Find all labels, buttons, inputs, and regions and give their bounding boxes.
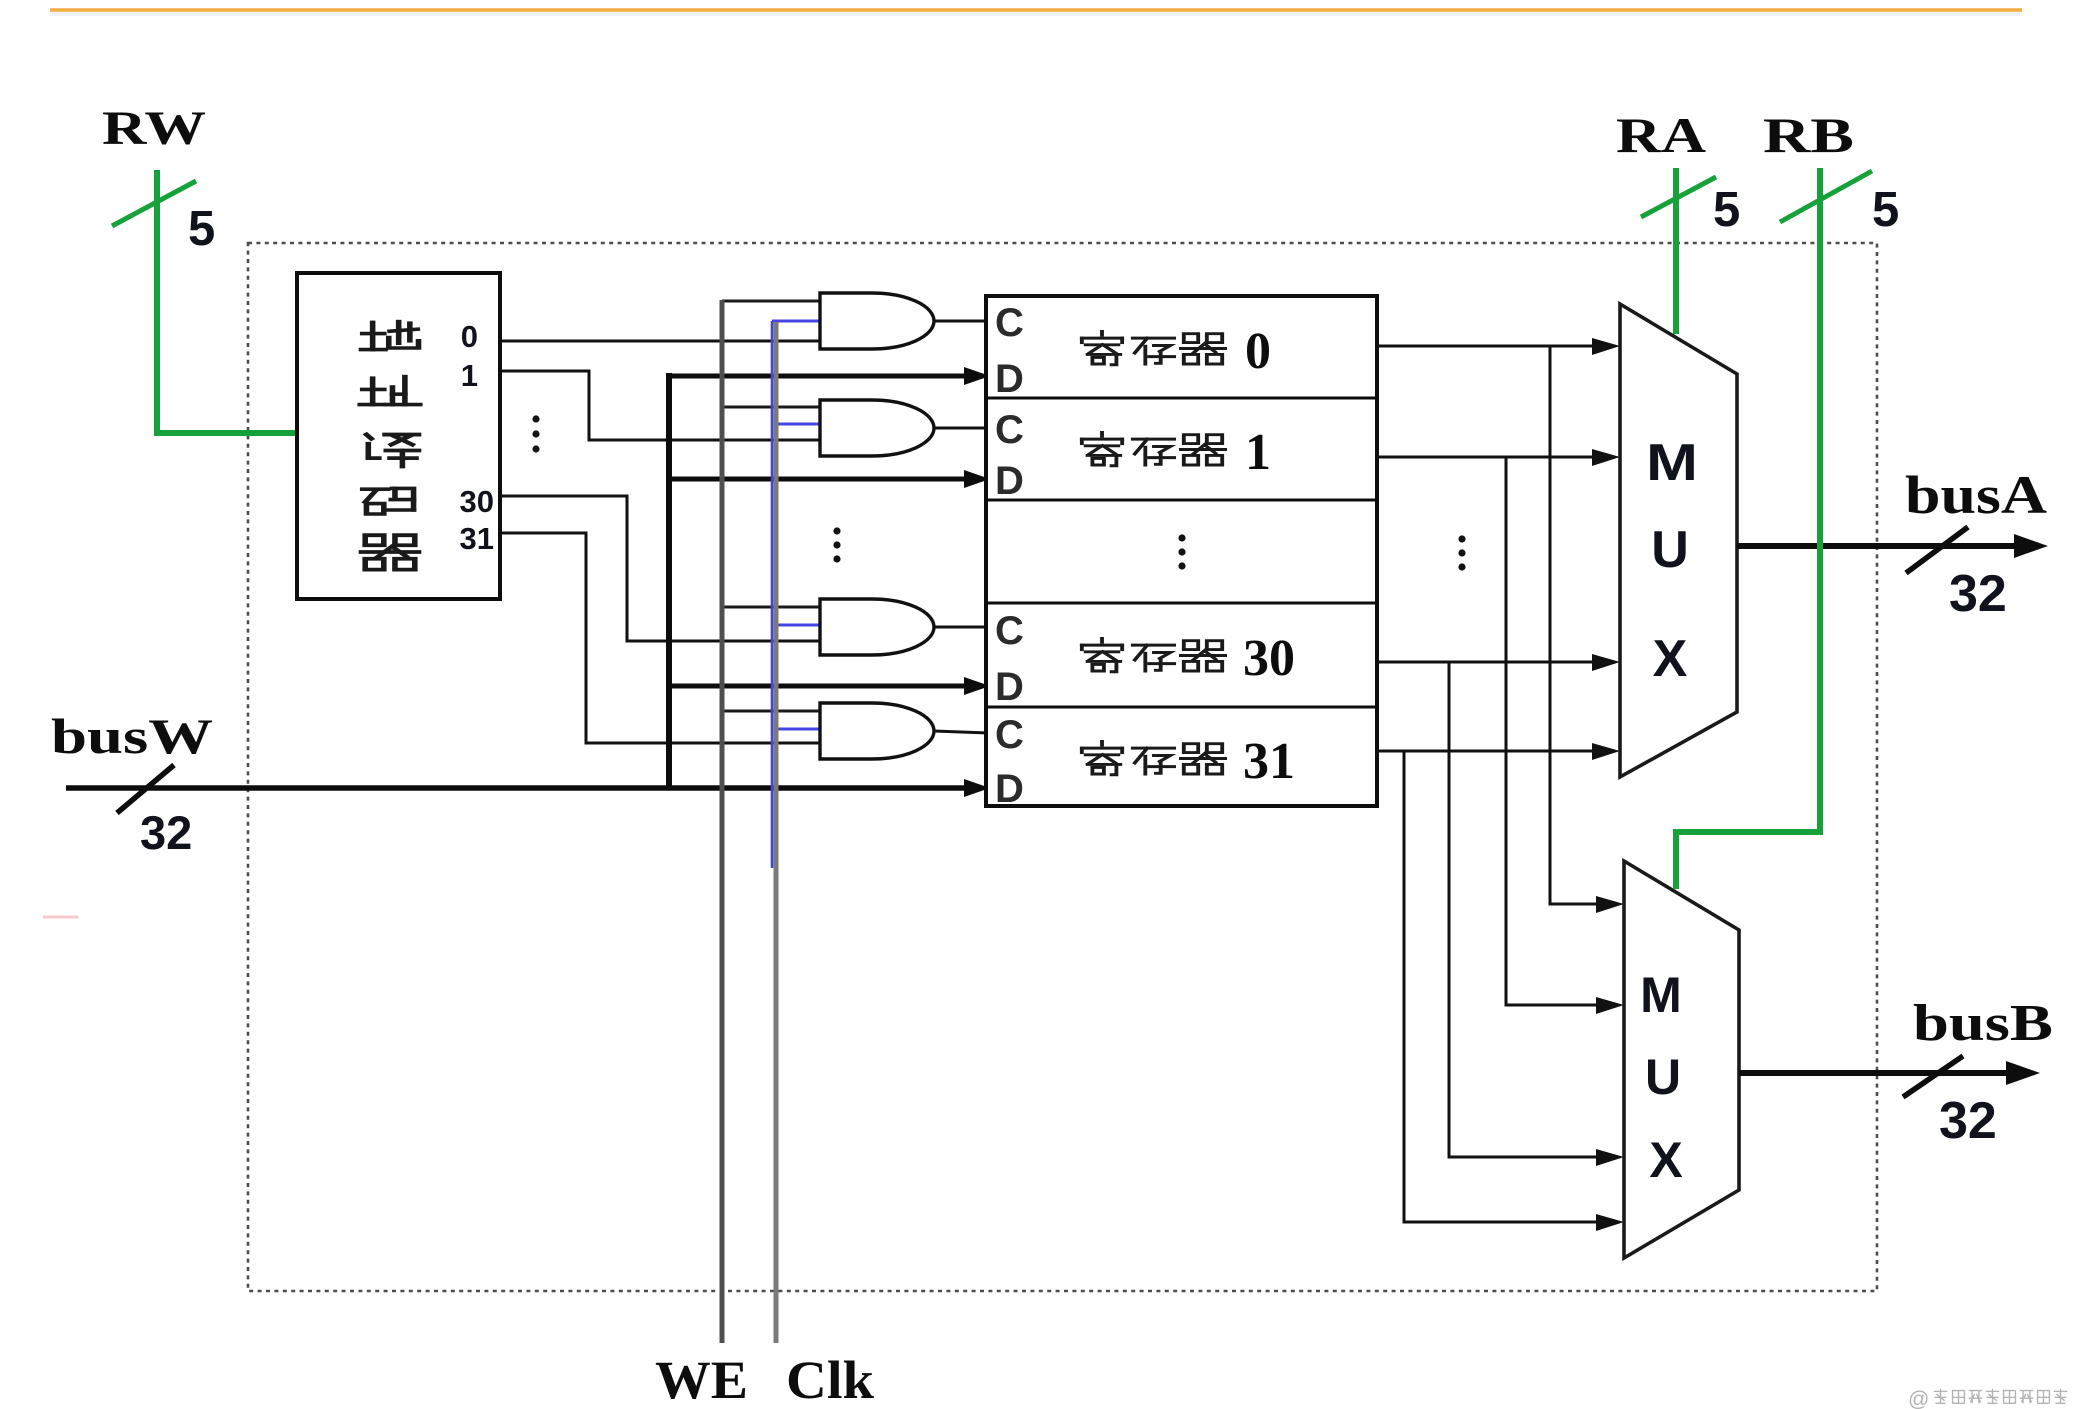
gate output wires to register C pins [934,321,988,733]
AND gate A2 [820,400,934,456]
slash on RB [1780,171,1872,222]
MUX A label [1646,434,1698,688]
svg-text:busB: busB [1913,995,2053,1052]
svg-text:30: 30 [1243,630,1295,687]
svg-text:C: C [995,301,1024,345]
watermark [1908,1388,2067,1409]
svg-text:C: C [995,408,1024,452]
MUX B body [1624,861,1739,1258]
svg-text:X: X [1649,1132,1682,1188]
register file outer box [986,296,1377,806]
branch wire reg1 to MUX B [1506,457,1602,1005]
wire WE (gray vertical) [720,300,725,1343]
AND gate A1 [820,293,934,349]
ellipsis MUX A inputs [1458,535,1465,570]
bus-width slash on busW [117,765,174,813]
svg-text:5: 5 [188,202,215,256]
svg-text:0: 0 [461,319,478,354]
branch wire reg30 to MUX B [1449,662,1602,1157]
wire Clk (gray vertical) [774,322,779,1343]
register 30 labels [995,609,1024,709]
bus busB output [1739,1070,2008,1076]
decoder output pin labels 0 1 30 31 [460,319,494,556]
svg-text:U: U [1645,1049,1681,1105]
svg-text:busW: busW [51,708,213,764]
svg-text:1: 1 [1245,424,1271,481]
svg-text:5: 5 [1713,183,1740,237]
svg-text:31: 31 [1243,733,1295,790]
wire decoder out 0 to AND gate A1 [500,340,820,343]
register row dividers [986,398,1377,707]
svg-text:32: 32 [1939,1092,1997,1150]
wire decoder out 1 to AND gate A2 [500,371,820,440]
bus-width slash on RW [112,181,196,226]
wire decoder out 30 to AND gate A3 [500,496,820,641]
svg-text:M: M [1646,434,1698,492]
svg-text:0: 0 [1245,323,1271,380]
MUX B label [1640,967,1683,1188]
register 0 labels [995,301,1024,401]
svg-text:D: D [995,665,1024,709]
svg-text:X: X [1653,630,1688,688]
WE stubs to gate inputs [722,301,820,711]
svg-text:M: M [1640,967,1682,1023]
top orange divider line [50,10,2022,16]
AND gate A3 [820,599,934,655]
svg-text:31: 31 [460,521,494,556]
wire RA (green) into MUX A [1673,168,1679,334]
svg-text:32: 32 [1949,565,2007,623]
svg-text:D: D [995,767,1024,811]
Clk blue stubs to gate inputs [772,321,822,729]
wire RW (green, 5-bit select into decoder) [157,170,297,433]
wire Clk blue core [771,321,774,868]
svg-text:1: 1 [461,358,478,393]
svg-text:U: U [1651,521,1689,579]
slash on busA [1906,527,1968,573]
decoder label 地址译码器 (address decoder) [360,322,420,570]
svg-text:RW: RW [102,102,206,155]
decoder U1 box [297,273,500,599]
bus busA output [1737,543,2016,549]
faint artifact line [43,916,78,919]
svg-text:5: 5 [1872,183,1899,237]
busW arrowhead into register 31 D [964,779,990,797]
register 30 output wire to MUX A [1377,661,1598,664]
svg-text:C: C [995,609,1024,653]
register 1 labels [995,408,1024,503]
slash on RA [1641,177,1716,217]
svg-text:Clk: Clk [786,1350,874,1409]
D-input arrow register 1 [666,477,968,482]
branch wire reg31 to MUX B [1404,751,1602,1222]
wire RB (green) into MUX B [1676,168,1820,889]
wire decoder out 31 to AND gate A4 [500,533,820,743]
svg-text:C: C [995,713,1024,757]
D-input arrow register 30 [666,684,968,689]
bus busW horizontal (32-bit write data) [66,785,968,791]
ellipsis between gates [833,527,840,562]
register 0 output wire to MUX A [1377,345,1598,348]
AND gate A4 [820,703,934,759]
register block ellipsis [1178,534,1185,569]
D-input arrow register 0 [666,374,968,379]
busW riser (vertical distribution) [666,373,672,790]
svg-text:30: 30 [460,484,494,519]
svg-text:@: @ [1908,1388,1929,1409]
svg-text:D: D [995,459,1024,503]
register 31 output wire to MUX A [1377,750,1598,753]
svg-text:busA: busA [1905,465,2047,525]
dashed enclosure border [248,243,1877,1291]
slash on busB [1903,1056,1963,1097]
register 1 output wire to MUX A [1377,456,1598,459]
svg-text:32: 32 [140,806,192,859]
svg-text:RB: RB [1763,107,1854,163]
branch wire reg0 to MUX B [1550,346,1602,904]
svg-text:D: D [995,357,1024,401]
register 31 labels [995,713,1024,811]
svg-text:WE: WE [655,1350,748,1409]
MUX A body [1620,304,1737,777]
decoder ellipsis [532,415,539,452]
svg-text:RA: RA [1616,107,1706,163]
